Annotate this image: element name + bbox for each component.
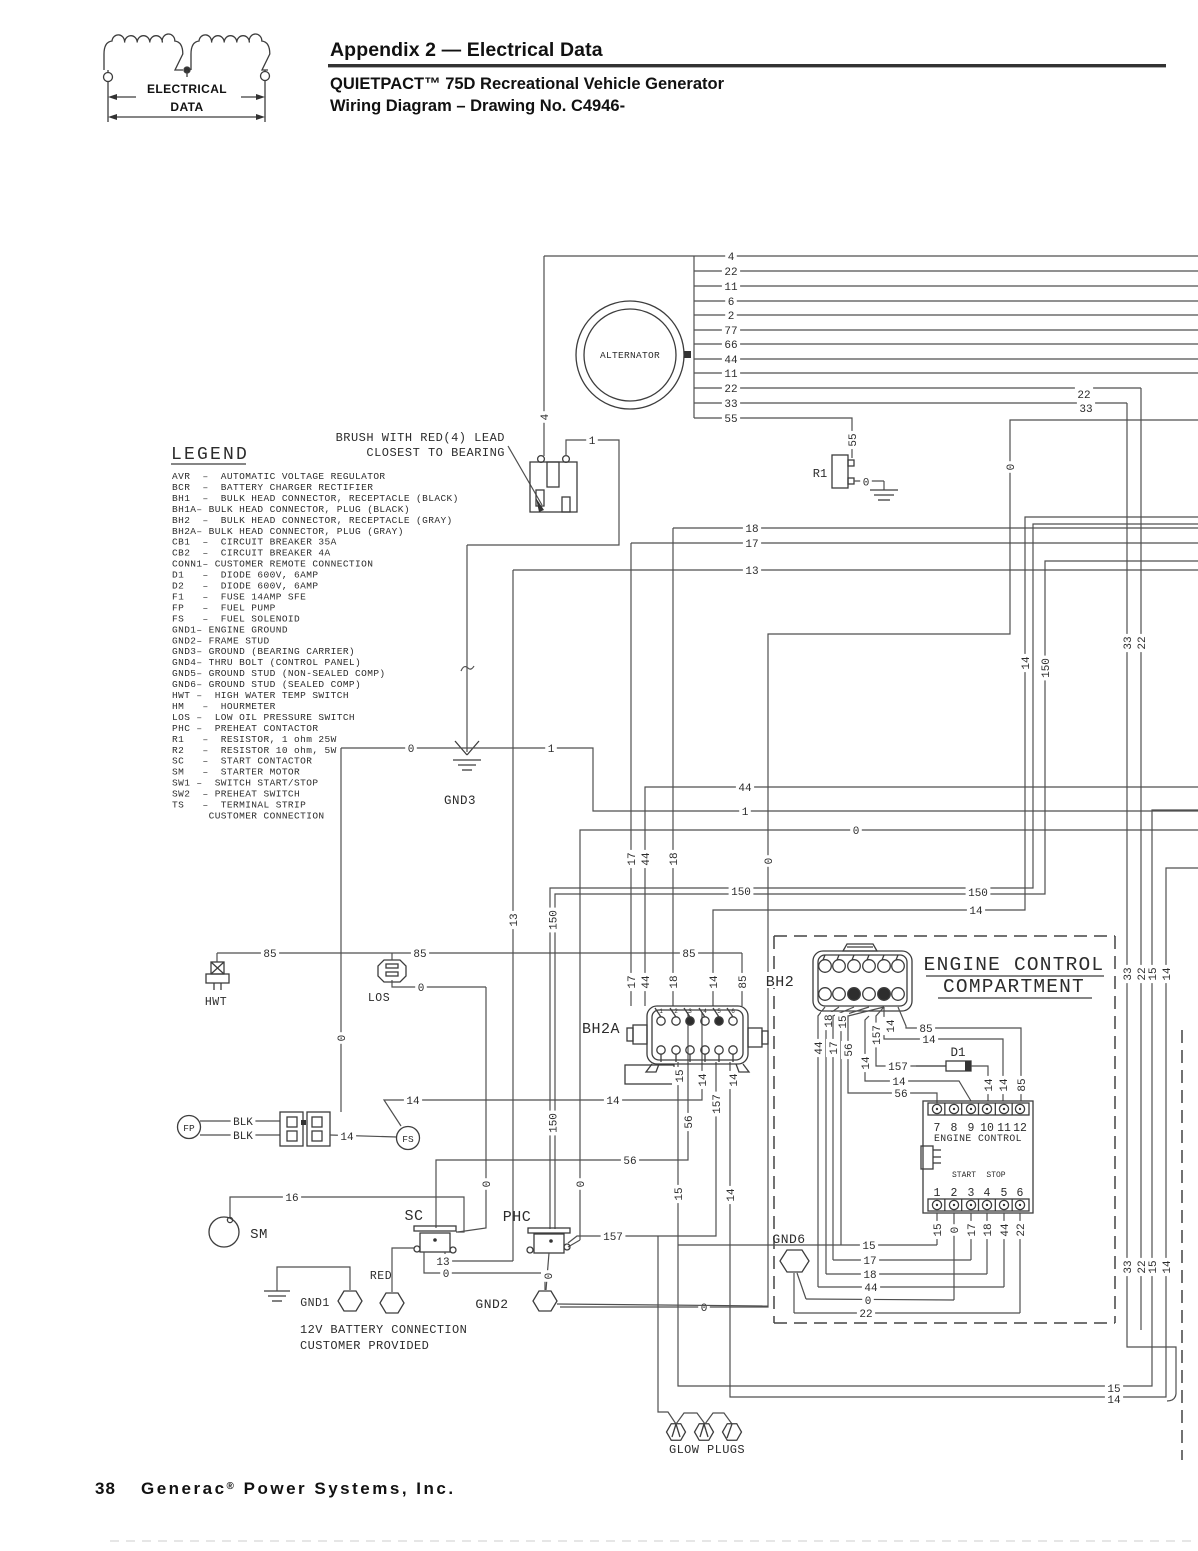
svg-text:55: 55	[848, 433, 860, 446]
svg-text:14: 14	[1021, 656, 1033, 670]
wire 22 collector	[794, 1312, 1020, 1314]
wire 33 vertical	[1127, 403, 1176, 1394]
wire 44 collector	[818, 1286, 1004, 1288]
svg-text:18: 18	[669, 975, 681, 988]
svg-text:2: 2	[728, 311, 735, 323]
wire 1 to right edge	[467, 748, 1198, 811]
bottom scan edge	[110, 1540, 1198, 1542]
svg-text:BH2A– BULK HEAD CONNECTOR, PLU: BH2A– BULK HEAD CONNECTOR, PLUG (GRAY)	[172, 526, 404, 537]
svg-text:GND2: GND2	[475, 1297, 508, 1312]
wire 55 (to R1)	[694, 418, 852, 458]
node GND6	[780, 1250, 809, 1272]
svg-text:85: 85	[1017, 1078, 1029, 1091]
svg-text:14: 14	[726, 1188, 738, 1202]
svg-text:14: 14	[886, 1019, 898, 1033]
svg-text:12V BATTERY CONNECTION: 12V BATTERY CONNECTION	[300, 1323, 467, 1337]
svg-text:17: 17	[627, 975, 639, 988]
svg-text:BLK: BLK	[233, 1131, 253, 1143]
title underline	[328, 64, 1166, 67]
svg-text:BH2: BH2	[766, 974, 795, 991]
svg-text:CB1 – CIRCUIT BREAKER 35A: CB1 – CIRCUIT BREAKER 35A	[172, 537, 337, 548]
label 55 vertical	[845, 431, 860, 449]
svg-text:1: 1	[659, 1008, 663, 1015]
labels 150	[729, 884, 754, 898]
svg-text:33: 33	[724, 399, 737, 411]
svg-text:16: 16	[285, 1193, 298, 1205]
svg-text:14: 14	[606, 1096, 620, 1108]
GND6 stub wires	[793, 1273, 795, 1313]
wire 85 below BH2	[898, 1007, 1021, 1101]
diode D1	[916, 1065, 946, 1067]
svg-text:150: 150	[968, 888, 988, 900]
svg-text:SW1 – SWITCH START/STOP: SW1 – SWITCH START/STOP	[172, 778, 318, 789]
svg-text:GND6: GND6	[772, 1232, 805, 1247]
svg-text:0: 0	[853, 826, 860, 838]
svg-text:85: 85	[738, 975, 750, 988]
svg-text:FP: FP	[183, 1123, 195, 1134]
wire 18 below BH2	[826, 1007, 839, 1274]
svg-text:1: 1	[548, 744, 555, 756]
alternator	[576, 301, 684, 409]
svg-text:D1: D1	[950, 1046, 965, 1060]
svg-text:LOS – LOW OIL PRESSURE SWITCH: LOS – LOW OIL PRESSURE SWITCH	[172, 712, 355, 723]
svg-text:CUSTOMER PROVIDED: CUSTOMER PROVIDED	[300, 1339, 429, 1353]
wire 85 vertical to BH2A	[741, 953, 743, 1006]
svg-text:BH2A: BH2A	[582, 1021, 620, 1038]
engine control unit	[923, 1101, 1033, 1213]
svg-text:0: 0	[576, 1181, 588, 1188]
wire 18	[673, 527, 1198, 529]
svg-text:17: 17	[967, 1223, 979, 1236]
svg-text:17: 17	[829, 1041, 841, 1054]
svg-text:BH1 – BULK HEAD CONNECTOR, R: BH1 – BULK HEAD CONNECTOR, RECEPTACLE (B…	[172, 493, 459, 504]
wire 157	[568, 1062, 716, 1243]
svg-text:SC – START CONTACTOR: SC – START CONTACTOR	[172, 756, 312, 767]
svg-text:55: 55	[724, 414, 737, 426]
wire 15 bottom	[678, 810, 1198, 1386]
svg-text:6: 6	[731, 1008, 735, 1015]
node GND3	[466, 748, 468, 752]
svg-text:22: 22	[1137, 636, 1149, 649]
connector BH2A	[647, 1006, 748, 1064]
svg-text:18: 18	[983, 1223, 995, 1236]
wire to GND3	[466, 545, 468, 748]
glow plug zigzag a	[676, 1413, 705, 1424]
svg-text:ENGINE CONTROL: ENGINE CONTROL	[924, 954, 1105, 976]
svg-text:ELECTRICAL: ELECTRICAL	[147, 82, 227, 96]
svg-text:0: 0	[482, 1181, 494, 1188]
wire 14 fs	[384, 1012, 702, 1126]
svg-text:CUSTOMER CONNECTION: CUSTOMER CONNECTION	[172, 810, 325, 821]
fuel pump FP	[178, 1116, 201, 1139]
svg-text:GND3– GROUND (BEARING CARRIER): GND3– GROUND (BEARING CARRIER)	[172, 646, 355, 657]
wire 22 (to vertical)	[694, 387, 1141, 389]
svg-text:17: 17	[863, 1256, 876, 1268]
svg-text:77: 77	[724, 326, 737, 338]
wire 13	[513, 569, 1198, 571]
svg-text:14: 14	[922, 1035, 936, 1047]
svg-text:F1 – FUSE 14AMP SFE: F1 – FUSE 14AMP SFE	[172, 591, 306, 602]
svg-text:33: 33	[1123, 967, 1135, 980]
wire 15 below BH2A	[677, 1062, 679, 1245]
svg-text:ALTERNATOR: ALTERNATOR	[600, 350, 660, 361]
wire 13 vertical to SC	[512, 570, 514, 1261]
wire 22 vertical	[1140, 388, 1142, 1330]
labels 33 22 15 14 upper	[1120, 965, 1135, 983]
svg-text:17: 17	[745, 539, 758, 551]
svg-text:14: 14	[984, 1078, 996, 1092]
svg-text:22: 22	[1016, 1223, 1028, 1236]
svg-text:15: 15	[675, 1069, 687, 1082]
svg-text:FS – FUEL SOLENOID: FS – FUEL SOLENOID	[172, 613, 300, 624]
svg-text:15: 15	[1148, 1260, 1160, 1273]
wire 18 vertical to BH2A	[672, 528, 674, 1006]
svg-text:157: 157	[603, 1232, 623, 1244]
svg-text:150: 150	[549, 910, 561, 930]
svg-text:18: 18	[824, 1014, 836, 1027]
svg-text:GND4– THRU BOLT (CONTROL PANEL: GND4– THRU BOLT (CONTROL PANEL)	[172, 657, 361, 668]
wire 0 from LOS	[392, 980, 486, 987]
wire 0 upper to PHC	[568, 1240, 580, 1247]
svg-text:3: 3	[688, 1008, 692, 1015]
wire 0 at SC	[424, 1252, 545, 1290]
brush leader line	[508, 446, 542, 505]
svg-text:DATA: DATA	[170, 100, 203, 114]
svg-text:13: 13	[745, 566, 758, 578]
wire 0 vertical to SC	[458, 987, 486, 1232]
svg-text:Generac® Power Systems, Inc.: Generac® Power Systems, Inc.	[141, 1479, 456, 1498]
svg-text:BH2 – BULK HEAD CONNECTOR, R: BH2 – BULK HEAD CONNECTOR, RECEPTACLE (G…	[172, 515, 453, 526]
svg-text:14: 14	[729, 1073, 741, 1087]
svg-text:R1 – RESISTOR, 1 ohm 25W: R1 – RESISTOR, 1 ohm 25W	[172, 734, 337, 745]
labels 33 22 15 14 lower	[1120, 1258, 1135, 1276]
svg-text:17: 17	[627, 852, 639, 865]
svg-text:PHC – PREHEAT CONTACTOR: PHC – PREHEAT CONTACTOR	[172, 723, 318, 734]
svg-text:PHC: PHC	[503, 1209, 532, 1226]
wire 17	[631, 542, 1198, 544]
wire 56 below BH2	[848, 1007, 937, 1103]
svg-text:GND1– ENGINE GROUND: GND1– ENGINE GROUND	[172, 624, 288, 635]
svg-text:BCR – BATTERY CHARGER RECTIF: BCR – BATTERY CHARGER RECTIFIER	[172, 482, 373, 493]
wire 0 PHC to GND2	[546, 1253, 549, 1290]
BH2 tiny pin marks	[823, 955, 825, 960]
svg-text:HWT: HWT	[205, 996, 227, 1009]
wire break mark	[461, 666, 474, 671]
wire RED to SC	[392, 1248, 414, 1292]
logo center tap dot	[184, 67, 190, 73]
outer dashed border right	[1181, 1030, 1183, 1460]
engine control edge connector	[921, 1146, 933, 1169]
svg-text:CLOSEST TO BEARING: CLOSEST TO BEARING	[366, 446, 505, 460]
svg-text:CONN1– CUSTOMER REMOTE CONNECT: CONN1– CUSTOMER REMOTE CONNECTION	[172, 559, 373, 570]
wires BLK	[200, 1120, 280, 1122]
svg-text:150: 150	[1041, 658, 1053, 678]
svg-text:0: 0	[418, 983, 425, 995]
svg-text:33: 33	[1079, 404, 1092, 416]
svg-text:157: 157	[872, 1025, 884, 1045]
svg-text:85: 85	[263, 949, 276, 961]
svg-text:STOP: STOP	[986, 1171, 1005, 1180]
svg-text:BLK: BLK	[233, 1117, 253, 1129]
svg-text:0: 0	[337, 1035, 349, 1042]
wire 14 bottom	[730, 868, 1198, 1397]
node GND2	[533, 1291, 557, 1311]
engine control compartment border	[774, 935, 1115, 937]
glow plug zigzag b	[705, 1413, 732, 1424]
brush holder assembly	[530, 462, 577, 512]
resistor R1	[832, 455, 848, 488]
svg-text:SW2 – PREHEAT SWITCH: SW2 – PREHEAT SWITCH	[172, 789, 300, 800]
wire GND2 to 0 net	[557, 1304, 768, 1306]
svg-text:4: 4	[540, 413, 552, 420]
svg-text:2: 2	[951, 1187, 958, 1200]
svg-text:ENGINE CONTROL: ENGINE CONTROL	[934, 1133, 1022, 1144]
svg-text:44: 44	[814, 1041, 826, 1055]
svg-text:SC: SC	[404, 1208, 423, 1225]
svg-text:3: 3	[968, 1187, 975, 1200]
svg-text:4: 4	[728, 252, 735, 264]
wire 85	[217, 952, 742, 954]
logo right terminal	[261, 72, 270, 81]
wire 44 below BH2	[818, 1007, 825, 1287]
wire 0 net	[560, 420, 1198, 1307]
wire 14 mid	[713, 517, 1198, 1006]
svg-text:18: 18	[669, 852, 681, 865]
svg-text:Wiring Diagram – Drawing No. C: Wiring Diagram – Drawing No. C4946-	[330, 97, 625, 115]
wire 18 collector	[826, 1273, 987, 1275]
svg-text:15: 15	[933, 1223, 945, 1236]
svg-text:85: 85	[413, 949, 426, 961]
svg-text:15: 15	[862, 1241, 875, 1253]
wire 150 a	[550, 524, 1198, 1229]
svg-text:R1: R1	[813, 467, 827, 481]
svg-text:150: 150	[549, 1113, 561, 1133]
svg-text:157: 157	[712, 1094, 724, 1114]
BH2A bottom detail	[625, 1065, 674, 1084]
svg-text:Appendix 2 — Electrical Data: Appendix 2 — Electrical Data	[330, 39, 603, 61]
svg-text:GND1: GND1	[300, 1297, 330, 1310]
svg-text:6: 6	[1017, 1187, 1024, 1200]
logo dimension arrows	[113, 96, 136, 98]
wire 150 b	[555, 561, 1198, 1229]
svg-text:33: 33	[1123, 636, 1135, 649]
wire 0 upper	[580, 830, 1198, 1240]
svg-text:HWT – HIGH WATER TEMP SWITCH: HWT – HIGH WATER TEMP SWITCH	[172, 690, 349, 701]
logo left terminal	[104, 73, 113, 82]
switch HWT	[216, 953, 218, 962]
svg-text:15: 15	[674, 1187, 686, 1200]
svg-text:GND3: GND3	[444, 794, 476, 808]
svg-text:44: 44	[641, 975, 653, 989]
svg-text:COMPARTMENT: COMPARTMENT	[943, 976, 1085, 998]
svg-text:56: 56	[623, 1156, 636, 1168]
wire 17 collector	[833, 1259, 971, 1261]
label BH2	[763, 972, 799, 988]
svg-text:157: 157	[888, 1062, 908, 1074]
svg-text:FP – FUEL PUMP: FP – FUEL PUMP	[172, 602, 276, 613]
BH2A bottom pin stems	[660, 1054, 662, 1062]
labels 33 22	[1075, 387, 1093, 401]
wire 15 below BH2	[841, 1007, 869, 1245]
svg-text:14: 14	[340, 1132, 354, 1144]
svg-text:FS: FS	[402, 1134, 414, 1145]
svg-text:44: 44	[641, 852, 653, 866]
wire 14 to FS	[330, 1135, 397, 1137]
svg-text:D1 – DIODE 600V, 6AMP: D1 – DIODE 600V, 6AMP	[172, 570, 318, 581]
hexagon RED	[380, 1293, 404, 1313]
svg-text:44: 44	[738, 783, 752, 795]
engine control pin drop wires	[936, 1213, 938, 1245]
wire 157 below BH2	[876, 1007, 946, 1066]
fuel solenoid FS	[397, 1127, 420, 1150]
svg-text:1: 1	[934, 1187, 941, 1200]
svg-text:14: 14	[892, 1077, 906, 1089]
svg-text:6: 6	[728, 297, 735, 309]
alternator output node dot	[684, 351, 691, 358]
svg-text:BRUSH WITH RED(4) LEAD: BRUSH WITH RED(4) LEAD	[336, 431, 505, 445]
svg-text:33: 33	[1123, 1260, 1135, 1273]
svg-text:22: 22	[724, 267, 737, 279]
wire 157 to glow plugs	[658, 1236, 676, 1424]
svg-text:GND5– GROUND STUD (NON-SEALED: GND5– GROUND STUD (NON-SEALED COMP)	[172, 668, 386, 679]
svg-text:START: START	[952, 1171, 976, 1180]
svg-text:SM: SM	[250, 1227, 268, 1243]
wire 17 vertical to BH2A	[630, 543, 632, 1006]
svg-text:11: 11	[724, 369, 738, 381]
wire 0 at GND3	[341, 747, 467, 749]
svg-text:14: 14	[1107, 1395, 1121, 1407]
svg-text:GND6– GROUND STUD (SEALED COMP: GND6– GROUND STUD (SEALED COMP)	[172, 679, 361, 690]
svg-text:0: 0	[1006, 464, 1018, 471]
svg-text:SM – STARTER MOTOR: SM – STARTER MOTOR	[172, 767, 300, 778]
svg-text:14: 14	[1162, 1260, 1174, 1274]
svg-text:14: 14	[709, 975, 721, 989]
svg-text:18: 18	[745, 524, 758, 536]
svg-text:11: 11	[724, 282, 738, 294]
svg-text:56: 56	[844, 1043, 856, 1056]
svg-text:15: 15	[1148, 967, 1160, 980]
svg-text:LEGEND: LEGEND	[171, 445, 249, 465]
svg-text:22: 22	[1077, 390, 1090, 402]
svg-text:0: 0	[408, 744, 415, 756]
fuel connector	[280, 1112, 303, 1146]
wire 56	[436, 1012, 688, 1228]
svg-text:14: 14	[969, 906, 983, 918]
hexagon GND1	[338, 1291, 362, 1311]
svg-text:85: 85	[919, 1024, 932, 1036]
svg-text:66: 66	[724, 340, 737, 352]
svg-text:14: 14	[698, 1073, 710, 1087]
svg-text:BH1A– BULK HEAD CONNECTOR, PLU: BH1A– BULK HEAD CONNECTOR, PLUG (BLACK)	[172, 504, 410, 515]
svg-text:14: 14	[999, 1078, 1011, 1092]
svg-text:5: 5	[717, 1008, 721, 1015]
glow plug 3	[723, 1424, 742, 1441]
ground at R1	[883, 481, 885, 490]
svg-text:22: 22	[724, 384, 737, 396]
svg-text:GLOW PLUGS: GLOW PLUGS	[669, 1443, 745, 1457]
svg-text:150: 150	[731, 887, 751, 899]
svg-text:4: 4	[984, 1187, 991, 1200]
svg-text:0: 0	[950, 1227, 962, 1234]
svg-text:38: 38	[95, 1479, 116, 1498]
wire 4 (rotor)	[544, 255, 1198, 257]
wire 16	[230, 1197, 464, 1232]
svg-text:TS – TERMINAL STRIP: TS – TERMINAL STRIP	[172, 800, 306, 811]
wire 1 from brush	[467, 440, 619, 545]
wire 44	[645, 787, 1198, 1006]
svg-text:AVR – AUTOMATIC VOLTAGE REGU: AVR – AUTOMATIC VOLTAGE REGULATOR	[172, 471, 386, 482]
svg-text:56: 56	[894, 1089, 907, 1101]
wire 15 collector	[678, 1244, 937, 1246]
svg-text:14: 14	[1162, 967, 1174, 981]
preheat contactor PHC	[528, 1228, 570, 1233]
connector BH2	[813, 951, 912, 1011]
svg-text:14: 14	[406, 1096, 420, 1108]
wire 4 vertical to brush	[543, 256, 545, 456]
wire 17 below BH2	[833, 1007, 854, 1260]
svg-text:LOS: LOS	[368, 992, 390, 1005]
ground GND1	[264, 1290, 290, 1292]
wire 33 (to vertical)	[694, 402, 1127, 404]
alternator wire number labels	[725, 249, 737, 263]
svg-text:0: 0	[863, 478, 870, 490]
svg-text:1: 1	[589, 436, 596, 448]
svg-text:85: 85	[682, 949, 695, 961]
logo coil winding symbol	[104, 34, 183, 70]
starter motor SM	[209, 1217, 239, 1247]
alternator output bus	[693, 256, 695, 418]
svg-text:GND2– FRAME STUD: GND2– FRAME STUD	[172, 635, 270, 646]
svg-text:13: 13	[509, 913, 521, 926]
svg-text:CB2 – CIRCUIT BREAKER 4A: CB2 – CIRCUIT BREAKER 4A	[172, 548, 331, 559]
svg-text:22: 22	[859, 1309, 872, 1321]
svg-text:0: 0	[443, 1269, 450, 1281]
svg-text:5: 5	[1001, 1187, 1008, 1200]
svg-text:44: 44	[724, 355, 738, 367]
svg-text:1: 1	[742, 807, 749, 819]
svg-text:56: 56	[684, 1115, 696, 1128]
wire 14 below BH2 b	[865, 1016, 971, 1101]
wire 0 from R1	[854, 480, 884, 482]
svg-text:0: 0	[544, 1273, 556, 1280]
svg-text:4: 4	[703, 1008, 707, 1015]
alternator stator wires 11 6 2 77 66 44 11 (to right edge)	[694, 270, 1198, 272]
start contactor SC	[414, 1226, 456, 1231]
glow plug 1	[667, 1424, 686, 1441]
wire 0 collector	[806, 1299, 954, 1300]
svg-text:0: 0	[764, 858, 776, 865]
svg-text:44: 44	[1000, 1223, 1012, 1237]
svg-text:HM – HOURMETER: HM – HOURMETER	[172, 701, 276, 712]
svg-text:QUIETPACT™ 75D Recreational Ve: QUIETPACT™ 75D Recreational Vehicle Gene…	[330, 75, 725, 93]
glow plug 2	[695, 1424, 714, 1441]
wire 0 vertical to connector	[340, 748, 342, 1112]
wire 13 at SC	[445, 1252, 513, 1261]
switch LOS	[378, 960, 406, 982]
svg-text:2: 2	[674, 1008, 678, 1015]
svg-text:R2 – RESISTOR 10 ohm, 5W: R2 – RESISTOR 10 ohm, 5W	[172, 745, 337, 756]
svg-text:RED: RED	[370, 1270, 392, 1283]
svg-text:14: 14	[861, 1056, 873, 1070]
wire 14 below BH2 a	[884, 1007, 1003, 1101]
svg-text:D2 – DIODE 600V, 6AMP: D2 – DIODE 600V, 6AMP	[172, 581, 318, 592]
